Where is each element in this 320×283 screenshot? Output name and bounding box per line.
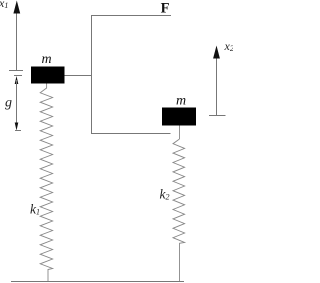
svg-text:g: g xyxy=(5,96,12,111)
svg-text:F: F xyxy=(161,1,170,17)
svg-text:m: m xyxy=(176,94,186,109)
svg-text:x1: x1 xyxy=(0,0,8,10)
svg-text:m: m xyxy=(41,52,51,67)
